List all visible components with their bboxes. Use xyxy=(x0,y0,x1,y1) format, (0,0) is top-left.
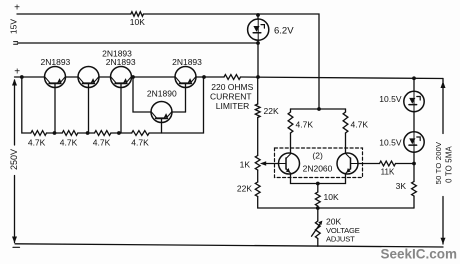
svg-text:3K: 3K xyxy=(396,181,407,191)
svg-text:LIMITER: LIMITER xyxy=(216,101,250,111)
svg-text:10K: 10K xyxy=(324,192,339,202)
svg-text:250V: 250V xyxy=(9,149,19,170)
svg-text:11K: 11K xyxy=(381,168,395,177)
svg-text:22K: 22K xyxy=(264,106,279,116)
svg-text:10.5V: 10.5V xyxy=(379,138,402,148)
svg-text:220 OHMS: 220 OHMS xyxy=(211,82,253,92)
svg-text:4.7K: 4.7K xyxy=(351,120,369,130)
svg-text:0 TO 5MA: 0 TO 5MA xyxy=(444,145,453,182)
svg-text:2N1893: 2N1893 xyxy=(41,57,71,67)
svg-text:4.7K: 4.7K xyxy=(93,138,111,148)
svg-text:SeekIC.com: SeekIC.com xyxy=(381,247,458,262)
svg-text:22K: 22K xyxy=(237,184,252,194)
svg-text:4.7K: 4.7K xyxy=(60,138,78,148)
svg-text:ADJUST: ADJUST xyxy=(326,235,355,244)
svg-text:4.7K: 4.7K xyxy=(131,138,149,148)
svg-text:4.7K: 4.7K xyxy=(28,138,46,148)
svg-text:10.5V: 10.5V xyxy=(379,94,402,104)
svg-text:6.2V: 6.2V xyxy=(274,26,294,37)
svg-text:10K: 10K xyxy=(130,17,145,27)
svg-text:(2): (2) xyxy=(312,151,323,161)
svg-text:15V: 15V xyxy=(8,19,18,34)
svg-text:+: + xyxy=(14,3,20,14)
svg-text:2N2060: 2N2060 xyxy=(303,164,333,174)
svg-text:+: + xyxy=(14,66,20,77)
svg-text:2N1893: 2N1893 xyxy=(172,57,202,67)
svg-text:50 TO 200V: 50 TO 200V xyxy=(434,141,443,184)
svg-text:CURRENT: CURRENT xyxy=(210,92,252,102)
svg-text:2N1890: 2N1890 xyxy=(147,89,177,99)
svg-text:20K: 20K xyxy=(326,217,341,227)
svg-text:2N1893: 2N1893 xyxy=(106,57,136,67)
svg-text:1K: 1K xyxy=(240,160,251,170)
svg-text:4.7K: 4.7K xyxy=(296,120,314,130)
